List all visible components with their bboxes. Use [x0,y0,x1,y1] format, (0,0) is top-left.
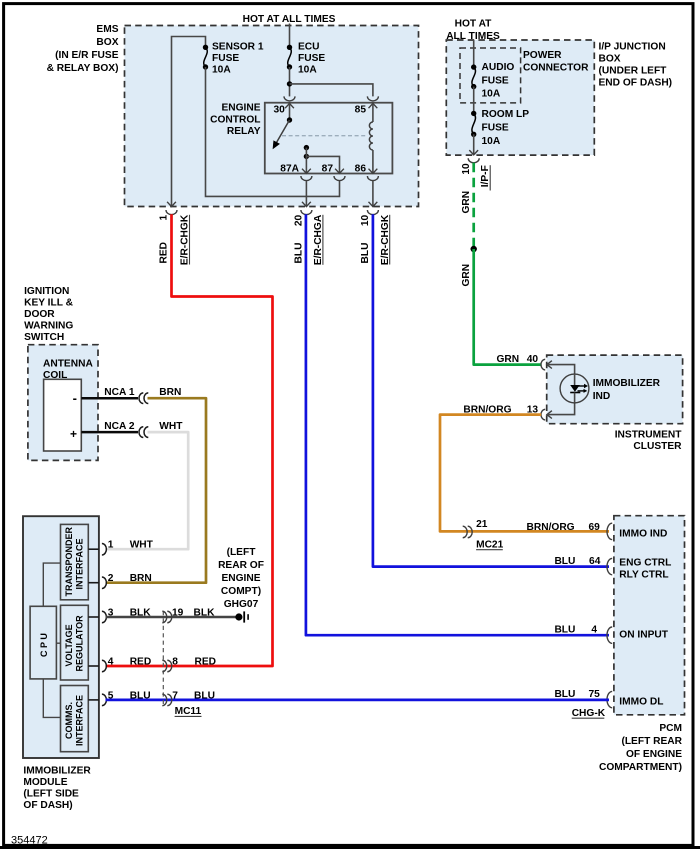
svg-text:GRN: GRN [461,264,472,287]
svg-text:RED: RED [159,242,170,264]
svg-text:INTERFACE: INTERFACE [74,695,84,746]
svg-text:ENGINE: ENGINE [221,103,260,114]
module pin 3: stub, arc, labels 3 BLK [88,608,151,623]
wire WHT: NCA 2 to module pin 1 [106,432,189,549]
svg-text:DOOR: DOOR [24,309,55,320]
svg-text:SWITCH: SWITCH [24,332,64,343]
labels 8 RED after MC11 [172,657,216,668]
labels BRN/ORG 13 at cluster pin [463,405,538,416]
label INSTRUMENT CLUSTER [615,430,683,453]
relay box: engine control relay [265,103,393,174]
svg-text:40: 40 [527,354,539,365]
svg-text:HOT AT: HOT AT [455,19,493,30]
svg-text:(UNDER LEFT: (UNDER LEFT [599,65,668,76]
EMS box (fuse/relay box) [125,26,419,207]
wire NCA 2 stub (black) [81,431,138,434]
svg-text:IMMO IND: IMMO IND [619,529,667,540]
svg-text:2: 2 [108,573,114,584]
svg-text:10: 10 [360,214,371,226]
svg-text:86: 86 [355,163,367,174]
PCM label [599,723,683,773]
wire between fuses [473,87,475,114]
svg-text:4: 4 [108,657,114,668]
svg-text:1: 1 [159,214,170,220]
antenna coil element box with polarity [44,379,82,451]
svg-text:+: + [70,427,77,441]
svg-text:HOT AT ALL TIMES: HOT AT ALL TIMES [243,14,336,25]
module pin 1: stub, arc, labels 1 WHT [88,540,153,555]
svg-text:BRN/ORG: BRN/ORG [527,522,575,533]
svg-text:BLU: BLU [194,690,215,701]
svg-text:CONTROL: CONTROL [210,115,260,126]
svg-text:I/P-F: I/P-F [480,165,491,187]
I/P box exit pin 10: arrow, cup, rotated labels 10 / I/P-F / GRN [461,150,491,213]
wire 87A to EMS exit pin 20 [305,181,307,207]
block COMMS. INTERFACE [61,686,89,752]
svg-text:MODULE: MODULE [23,777,67,788]
labels BLU 75 and CHG-K [554,689,605,719]
svg-text:BOX: BOX [599,53,621,64]
wire 86 to EMS exit pin 10 [372,181,374,207]
svg-text:REAR OF: REAR OF [218,560,264,571]
svg-text:354472: 354472 [11,835,48,847]
svg-text:MC21: MC21 [476,540,504,551]
svg-text:RED: RED [195,657,217,668]
svg-text:ENG CTRL: ENG CTRL [619,558,671,569]
wire from box top through fuses [473,40,475,67]
PCM pin 69 connector arc + port IMMO IND [607,523,667,539]
svg-text:OF ENGINE: OF ENGINE [626,749,682,760]
svg-text:64: 64 [589,556,601,567]
wire GRN dashed segment: I/P-F to junction [472,163,475,249]
wire NCA 1 stub (black) [81,397,138,400]
label ENGINE CONTROL RELAY [210,103,261,137]
relay switch (30 to 87A) [273,103,292,148]
module label IMMOBILIZER MODULE (LEFT SIDE OF DASH) [23,766,91,812]
PCM box [614,516,685,715]
svg-text:ROOM LP: ROOM LP [482,109,530,120]
EMS exit pin 10: arrow, cup, rotated labels 10 / BLU / E/R-CHGK [360,202,391,265]
labels 19 BLK after MC11 [172,608,215,619]
svg-text:C P U: C P U [39,633,49,657]
relay pin 87: arrow, label, cup below box [322,163,345,180]
figure number 354472 [11,835,48,847]
node HOT AT ALL TIMES (right) [446,19,500,42]
svg-text:END OF DASH): END OF DASH) [599,77,673,88]
svg-text:COMPARTMENT): COMPARTMENT) [599,762,682,773]
svg-text:WARNING: WARNING [24,320,73,331]
relay 87A contact and bridge to 87 [304,145,340,174]
svg-text:ECU: ECU [298,42,320,53]
svg-text:GRN: GRN [461,191,472,214]
svg-text:INTERFACE: INTERFACE [74,538,84,589]
LED IMMOBILIZER IND [560,374,589,403]
PCM pin 75 connector arc + port IMMO DL [607,691,663,707]
block VOLTAGE REGULATOR [61,605,89,680]
svg-text:CONNECTOR: CONNECTOR [523,62,589,73]
svg-text:BLU: BLU [294,243,305,264]
svg-text:ON INPUT: ON INPUT [619,630,668,641]
svg-text:& RELAY BOX): & RELAY BOX) [47,63,119,74]
svg-text:10A: 10A [298,65,317,76]
I/P junction box [446,40,594,155]
svg-text:FUSE: FUSE [482,123,509,134]
relay pin 86: arrow, label, cup below box [355,163,379,180]
svg-text:19: 19 [172,608,184,619]
label POWER CONNECTOR [523,50,589,73]
svg-text:-: - [73,391,77,406]
svg-text:21: 21 [476,519,488,530]
svg-text:ENGINE: ENGINE [221,573,260,584]
svg-text:REGULATOR: REGULATOR [74,615,84,672]
svg-text:PCM: PCM [659,723,682,734]
svg-text:COMMS.: COMMS. [64,702,74,739]
svg-text:87: 87 [322,163,334,174]
svg-text:GHG07: GHG07 [224,599,259,610]
connector MC21 (in-line) [463,519,504,550]
connector MC11 (in-line, pins 19/8/7) [162,611,201,717]
relay actuation dashed line [282,135,367,137]
svg-text:EMS: EMS [96,24,118,35]
svg-text:SENSOR 1: SENSOR 1 [212,42,264,53]
wire BRN: NCA 1 to module pin 2 [106,398,207,583]
svg-text:69: 69 [588,522,600,533]
cluster pin 13: connector arc and arrow [541,409,552,420]
antenna coil dashed box [28,345,98,461]
label IMMOBILIZER IND [593,378,661,402]
svg-text:4: 4 [591,625,597,636]
svg-text:NCA 2: NCA 2 [104,421,135,432]
PCM pin 64 connector arc + port ENG CTRL RLY CTRL [607,558,671,581]
cluster pin 40: connector arc and arrow [541,359,552,370]
wire BRN/ORG: cluster pin 13 to PCM pin 69 via MC21 pin 21 [440,415,609,532]
EMS box label [47,24,119,74]
PCM pin 4 connector arc + port ON INPUT [607,627,669,643]
svg-text:1: 1 [108,540,114,551]
label GRN (solid segment) [461,264,472,287]
ground GHG07 [235,611,248,622]
svg-text:(IN E/R FUSE: (IN E/R FUSE [55,50,119,61]
svg-text:I/P JUNCTION: I/P JUNCTION [599,41,666,52]
wire BLU: module pin 5 to PCM pin 75 [106,699,610,702]
wire BLK: module pin 3 to ground [106,616,236,619]
wire GRN solid: junction to instrument cluster pin 40 [474,249,542,365]
power connector box [460,48,521,103]
svg-text:FUSE: FUSE [298,53,325,64]
svg-text:BLU: BLU [554,556,575,567]
svg-text:RED: RED [130,657,152,668]
wire room fuse to I/P box exit [473,134,475,155]
junction dot on GRN wire [471,246,477,252]
svg-text:IGNITION: IGNITION [24,286,69,297]
wire RED E/R-CHGK: EMS pin 1 to immobilizer module pin 4 via MC11 pin 8 [106,214,273,666]
labels 7 BLU after MC11 [172,690,215,701]
svg-text:BOX: BOX [96,37,118,48]
svg-text:BLU: BLU [554,689,575,700]
svg-text:POWER: POWER [523,50,562,61]
label ANTENNA COIL [43,358,93,381]
instrument cluster box [547,355,683,424]
svg-text:30: 30 [274,105,286,116]
svg-text:10: 10 [461,163,472,175]
svg-text:VOLTAGE: VOLTAGE [64,624,74,666]
block TRANSPONDER INTERFACE [61,524,89,599]
fuse SENSOR 1 FUSE 10A with feed wire to pin 1 exit [172,37,264,208]
block CPU [30,606,56,679]
wire sensor fuse to relay pin 87 [206,67,340,196]
connector NCA 1 (( [139,393,148,404]
svg-text:7: 7 [172,690,178,701]
labels BLU 64 [554,556,600,567]
label (LEFT REAR OF ENGINE COMPT) GHG07 [218,547,264,610]
svg-text:IMMOBILIZER: IMMOBILIZER [23,766,91,777]
svg-text:CLUSTER: CLUSTER [633,441,682,452]
svg-text:INSTRUMENT: INSTRUMENT [615,430,683,441]
relay pin 87A: arrow, label, cup below box [280,163,312,180]
svg-text:IMMO DL: IMMO DL [619,697,663,708]
svg-text:20: 20 [294,214,305,226]
svg-text:RELAY: RELAY [227,126,261,137]
module pin 2: stub, arc, labels 2 BRN [88,573,151,588]
svg-text:FUSE: FUSE [212,53,239,64]
svg-text:E/R-CHGK: E/R-CHGK [380,214,391,265]
relay coil (pin 85 to 86) [369,103,372,173]
svg-text:WHT: WHT [130,540,154,551]
svg-text:BRN: BRN [130,573,152,584]
labels BRN/ORG 69 at PCM pin [527,522,601,533]
labels GRN 40 at cluster pin [497,354,539,365]
svg-text:BRN: BRN [159,387,181,398]
svg-text:BLU: BLU [360,243,371,264]
svg-text:KEY ILL &: KEY ILL & [24,297,74,308]
svg-text:10A: 10A [482,136,501,147]
fuse ECU FUSE 10A [287,42,326,76]
wire BLU E/R-CHGK: EMS pin 10 to PCM pin 64 [373,214,609,566]
svg-text:OF DASH): OF DASH) [23,800,72,811]
fuse ROOM LP FUSE 10A [471,109,529,147]
svg-text:BLK: BLK [194,608,216,619]
svg-text:GRN: GRN [497,354,520,365]
svg-text:87A: 87A [280,163,299,174]
module pin 4: stub, arc, labels 4 RED [88,657,151,672]
svg-text:IMMOBILIZER: IMMOBILIZER [593,378,661,389]
svg-text:(LEFT: (LEFT [227,547,257,558]
svg-text:10A: 10A [482,89,501,100]
cluster internal wires to LED [547,365,575,415]
svg-text:MC11: MC11 [175,706,202,717]
wire BLU E/R-CHGA: EMS pin 20 to PCM pin 4 [306,214,609,635]
svg-text:75: 75 [588,689,600,700]
svg-text:WHT: WHT [159,421,183,432]
svg-text:COMPT): COMPT) [221,586,261,597]
svg-text:RLY CTRL: RLY CTRL [619,569,668,580]
svg-text:10A: 10A [212,65,231,76]
wire ECU fuse to relay pins 30/85, junction dot [287,67,373,96]
CPU interconnect wires [43,563,60,717]
wire from HOT AT ALL TIMES down to ECU fuse [289,24,291,48]
fuse AUDIO FUSE 10A [471,62,514,100]
label IGNITION KEY ILL & DOOR WARNING SWITCH [24,286,74,343]
EMS exit pin 1: arrow, cup, rotated labels 1 / RED / E/R-CHGK [159,202,191,265]
EMS exit pin 20: arrow, cup, rotated labels 20 / BLU / E/R-CHGA [294,202,325,265]
svg-text:85: 85 [355,105,367,116]
connector NCA 2 (( [139,427,148,438]
svg-text:CHG-K: CHG-K [572,708,606,719]
immobilizer module box [23,516,99,758]
relay pin 30: connector cup, arrow, label [274,96,296,115]
svg-text:AUDIO: AUDIO [482,62,515,73]
labels NCA 2 / WHT [104,421,183,432]
svg-text:(LEFT REAR: (LEFT REAR [621,736,682,747]
node HOT AT ALL TIMES (left) [243,14,336,25]
labels NCA 1 / BRN [104,387,181,398]
svg-text:FUSE: FUSE [482,76,509,87]
svg-text:IND: IND [593,391,611,402]
svg-text:ANTENNA: ANTENNA [43,358,93,369]
relay pin 85: connector cup, arrow, label [355,96,379,115]
module pin 5: stub, arc, labels 5 BLU [88,690,150,705]
svg-text:TRANSPONDER: TRANSPONDER [64,526,74,596]
I/P junction box label [599,41,673,88]
svg-text:BLU: BLU [554,625,575,636]
svg-text:(LEFT SIDE: (LEFT SIDE [23,789,79,800]
svg-text:NCA 1: NCA 1 [104,387,135,398]
labels BLU 4 [554,625,597,636]
svg-text:8: 8 [172,657,178,668]
